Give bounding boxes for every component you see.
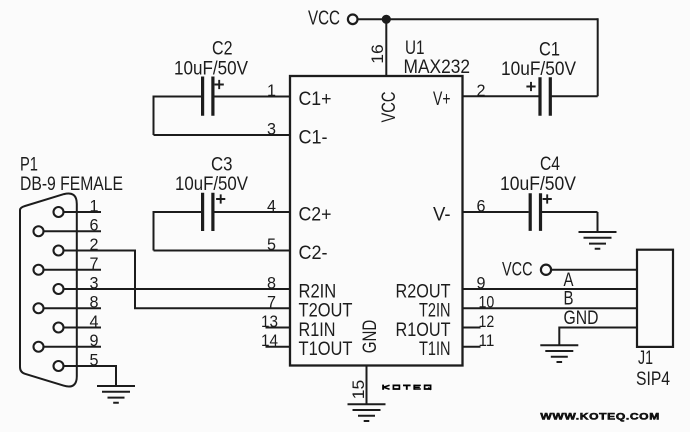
svg-text:10: 10: [479, 293, 495, 312]
svg-text:SIP4: SIP4: [636, 369, 670, 390]
svg-text:10uF/50V: 10uF/50V: [175, 174, 248, 195]
svg-text:C2-: C2-: [299, 243, 328, 264]
svg-text:J1: J1: [638, 348, 653, 369]
svg-text:C4: C4: [540, 154, 560, 175]
svg-text:10uF/50V: 10uF/50V: [501, 59, 576, 80]
svg-text:7: 7: [267, 293, 276, 312]
svg-text:11: 11: [479, 331, 495, 350]
svg-text:GND: GND: [359, 320, 381, 354]
svg-text:C3: C3: [211, 155, 233, 176]
svg-text:C1+: C1+: [299, 89, 332, 110]
svg-text:MAX232: MAX232: [404, 57, 471, 78]
svg-text:R1IN: R1IN: [299, 320, 336, 341]
svg-text:P1: P1: [20, 154, 38, 176]
svg-text:2: 2: [477, 81, 486, 100]
svg-text:12: 12: [479, 312, 495, 331]
svg-text:R2OUT: R2OUT: [396, 281, 451, 302]
svg-text:T2IN: T2IN: [419, 301, 451, 322]
svg-text:9: 9: [477, 273, 486, 292]
svg-text:WWW.KOTEQ.COM: WWW.KOTEQ.COM: [540, 410, 660, 421]
svg-text:5: 5: [90, 350, 99, 369]
svg-text:8: 8: [267, 273, 276, 292]
svg-text:10uF/50V: 10uF/50V: [174, 59, 248, 80]
svg-text:C1-: C1-: [299, 127, 328, 148]
svg-text:T2OUT: T2OUT: [299, 301, 353, 322]
svg-text:1: 1: [90, 196, 99, 215]
svg-text:9: 9: [90, 331, 99, 350]
svg-text:4: 4: [267, 196, 276, 215]
svg-text:C2: C2: [212, 39, 233, 60]
svg-text:VCC: VCC: [308, 8, 340, 30]
svg-text:V+: V+: [433, 89, 451, 110]
svg-text:7: 7: [90, 254, 99, 273]
svg-text:GND: GND: [564, 308, 599, 329]
svg-text:6: 6: [477, 196, 486, 215]
svg-text:4: 4: [90, 312, 99, 331]
svg-text:DB-9 FEMALE: DB-9 FEMALE: [20, 174, 123, 195]
svg-text:3: 3: [90, 273, 99, 292]
svg-text:3: 3: [267, 119, 276, 138]
svg-text:1: 1: [267, 81, 276, 100]
svg-text:14: 14: [261, 331, 278, 350]
svg-text:R1OUT: R1OUT: [396, 320, 451, 341]
svg-text:5: 5: [267, 235, 276, 254]
svg-text:10uF/50V: 10uF/50V: [500, 174, 576, 195]
svg-text:2: 2: [90, 235, 99, 254]
svg-text:15: 15: [349, 380, 368, 400]
svg-text:VCC: VCC: [502, 259, 533, 280]
svg-text:V-: V-: [433, 204, 451, 225]
svg-text:B: B: [564, 288, 574, 309]
svg-text:T1IN: T1IN: [419, 339, 451, 360]
svg-text:T1OUT: T1OUT: [299, 339, 353, 360]
svg-text:6: 6: [90, 216, 99, 235]
svg-text:16: 16: [368, 44, 387, 64]
svg-text:VCC: VCC: [378, 92, 400, 123]
svg-text:8: 8: [90, 293, 99, 312]
svg-text:R2IN: R2IN: [299, 281, 337, 302]
svg-text:C2+: C2+: [299, 204, 332, 225]
svg-text:13: 13: [261, 312, 278, 331]
svg-text:U1: U1: [405, 38, 425, 59]
svg-text:C1: C1: [539, 40, 560, 61]
